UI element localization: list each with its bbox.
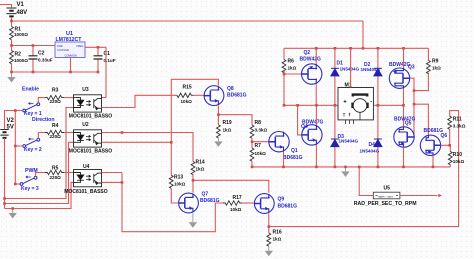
switch S2 Key=2 Direction bbox=[23, 138, 40, 147]
svg-text:BD681G: BD681G bbox=[283, 155, 303, 161]
svg-text:LM7812CT: LM7812CT bbox=[56, 37, 83, 43]
svg-text:Q6: Q6 bbox=[441, 133, 448, 139]
diode D2 1N5404G bbox=[377, 48, 379, 105]
svg-text:Q1: Q1 bbox=[291, 148, 298, 154]
svg-text:Q7: Q7 bbox=[202, 192, 209, 198]
wire R5 to U4 anode bbox=[64, 172, 74, 174]
wire opto cathode return line 1 bbox=[5, 108, 74, 199]
svg-text:1N5404G: 1N5404G bbox=[339, 139, 359, 144]
battery V1 bbox=[7, 8, 17, 16]
wire H-bridge top rail bbox=[284, 47, 428, 49]
resistor R10 10kohm bbox=[448, 152, 452, 165]
wire Q9 emitter feedback to R11 R10 divider bbox=[269, 111, 459, 227]
svg-text:R11: R11 bbox=[453, 117, 462, 123]
svg-text:R10: R10 bbox=[453, 152, 462, 158]
capacitor C2 0.33uF bbox=[32, 46, 34, 73]
svg-text:10kΩ: 10kΩ bbox=[453, 159, 465, 164]
svg-text:R19: R19 bbox=[223, 120, 232, 126]
svg-text:R16: R16 bbox=[273, 230, 282, 236]
wire R11 bottom to divider node bbox=[449, 129, 451, 145]
svg-text:1N5404G: 1N5404G bbox=[360, 149, 380, 154]
wire U1 output 12V bbox=[85, 46, 106, 48]
svg-text:rad/s→rpm: rad/s→rpm bbox=[378, 195, 393, 199]
svg-text:LINE: LINE bbox=[57, 44, 63, 48]
wire U1 common pin to ground line bbox=[70, 58, 72, 73]
svg-text:C2: C2 bbox=[38, 51, 45, 57]
wire Q5 emitter to return rail bbox=[403, 147, 405, 167]
wire battery V1 minus to 48V rail bbox=[11, 17, 13, 21]
wire Q2 collector to rail bbox=[315, 48, 317, 64]
wire Q9 emitter down to R16 bbox=[268, 213, 270, 233]
resistor R16 1kohm bbox=[267, 233, 271, 246]
svg-text:BD681G: BD681G bbox=[278, 204, 298, 210]
svg-text:U4: U4 bbox=[83, 164, 90, 170]
svg-text:V1: V1 bbox=[17, 2, 25, 8]
svg-text:Q8: Q8 bbox=[227, 86, 234, 92]
wire R3 to U3 anode bbox=[64, 97, 74, 99]
transistor Q1 BD681G bbox=[269, 132, 289, 152]
wire switch feed drop to S2 S3 bbox=[15, 111, 22, 185]
battery V2 5V bbox=[0, 130, 8, 138]
svg-text:10kΩ: 10kΩ bbox=[230, 207, 242, 212]
resistor R6 1kohm bbox=[282, 60, 286, 73]
optocoupler U3 MOC8101 bbox=[74, 95, 102, 112]
block U5 RAD_PER_SEC_TO_RPM bbox=[373, 192, 400, 199]
wire motor top pin to rail bbox=[350, 48, 352, 87]
svg-text:BDW42G: BDW42G bbox=[300, 57, 322, 63]
wire Q1 emitter to return rail bbox=[283, 152, 285, 167]
ground symbol below R16 bbox=[265, 246, 273, 256]
svg-text:U1: U1 bbox=[66, 31, 73, 37]
transistor Q3 BDW42G bbox=[389, 68, 409, 88]
wire bridge return to U5 input bbox=[359, 167, 373, 196]
ground symbol on bridge return rail bbox=[341, 167, 349, 177]
wire R15 to Q8 base bbox=[194, 94, 204, 96]
transistor Q2 BDW42G bbox=[302, 64, 322, 84]
diode D1 1N5404G bbox=[334, 48, 336, 105]
svg-text:Direction: Direction bbox=[32, 117, 54, 123]
svg-text:220Ω: 220Ω bbox=[50, 134, 62, 139]
svg-text:1N5404G: 1N5404G bbox=[340, 67, 360, 72]
ground symbol below Q7 bbox=[189, 213, 197, 228]
svg-text:C1: C1 bbox=[104, 51, 111, 57]
transistor Q9 BD681G bbox=[254, 194, 274, 214]
wire S3 to R5 bbox=[36, 173, 45, 177]
wire 12V rail down to U3 collector bbox=[102, 47, 107, 97]
resistor R1 1000ohm bbox=[10, 27, 14, 40]
wire 48V rail drop to H-bridge rail bbox=[362, 21, 364, 48]
resistor R19 1kohm bbox=[216, 125, 220, 138]
wire R6 bottom to Q2 base and Q1 collector column bbox=[284, 71, 301, 106]
wire R1 to node A bbox=[11, 40, 13, 46]
motor M1 bbox=[338, 88, 373, 124]
resistor R2 1000ohm bbox=[10, 51, 14, 64]
wire Q4 collector up to motor left node bbox=[315, 105, 317, 125]
svg-text:VOLTAGE: VOLTAGE bbox=[57, 48, 69, 52]
svg-text:1kΩ: 1kΩ bbox=[223, 128, 232, 133]
resistor R7 10kohm bbox=[250, 148, 254, 161]
svg-text:R5: R5 bbox=[52, 166, 59, 172]
wire 48V top rail bbox=[12, 20, 364, 22]
diode D4 1N5404G bbox=[377, 105, 379, 167]
svg-text:R3: R3 bbox=[52, 88, 59, 94]
wire R14 bottom node to Q9 collector bbox=[193, 174, 269, 192]
wire Q3 base network R9 and Q6 collector bbox=[410, 73, 429, 137]
svg-text:220Ω: 220Ω bbox=[50, 175, 62, 180]
wire U3 emitter to R15 row bbox=[102, 95, 178, 107]
svg-text:R2: R2 bbox=[15, 51, 22, 57]
svg-text:R17: R17 bbox=[233, 195, 242, 201]
svg-text:R14: R14 bbox=[196, 160, 205, 166]
wire motor left node row bbox=[284, 104, 340, 106]
svg-text:1000Ω: 1000Ω bbox=[14, 32, 28, 37]
wire R7 bottom to bridge return bbox=[251, 161, 253, 167]
wire Q4 emitter down to return rail bbox=[315, 145, 317, 167]
svg-text:R4: R4 bbox=[52, 123, 59, 129]
resistor R11 3.3kohm bbox=[448, 116, 452, 129]
wire V1 down to R1 bbox=[11, 21, 13, 27]
svg-text:3.3kΩ: 3.3kΩ bbox=[255, 128, 268, 133]
wire Q4 base drop bbox=[298, 105, 302, 135]
wire R13 bottom to Q7 base bbox=[171, 189, 178, 204]
resistor R9 1kohm bbox=[427, 60, 431, 73]
wire bridge return rail bbox=[252, 166, 450, 168]
wire R4 to U2 anode bbox=[64, 132, 74, 134]
svg-text:10kΩ: 10kΩ bbox=[255, 151, 267, 156]
svg-text:220Ω: 220Ω bbox=[50, 99, 62, 104]
svg-text:D4: D4 bbox=[369, 142, 376, 148]
svg-text:1kΩ: 1kΩ bbox=[273, 237, 282, 242]
wire node A down to R2 bbox=[11, 46, 13, 51]
wire V2 minus down to return lines bbox=[4, 138, 6, 209]
wire opto cathode return line 2 bbox=[5, 142, 74, 203]
svg-text:1000Ω: 1000Ω bbox=[14, 58, 28, 63]
op-amp U1 LM7812CT voltage regulator bbox=[55, 42, 85, 58]
svg-text:VREG: VREG bbox=[76, 44, 83, 48]
svg-text:Key = 3: Key = 3 bbox=[21, 186, 39, 192]
svg-text:U3: U3 bbox=[82, 87, 89, 93]
wire U2 collector to R14 top bbox=[102, 133, 194, 162]
wire rail left corner down to R6 bbox=[283, 48, 285, 59]
transistor Q7 BD681G bbox=[179, 193, 199, 213]
wire R2 to ground line bbox=[11, 64, 13, 72]
wire U5 output with arrow bbox=[400, 195, 438, 197]
wire Q6 base to divider node bbox=[441, 144, 450, 146]
wire S1 to R3 bbox=[38, 98, 45, 103]
wire V2 plus up to switch feed bbox=[5, 111, 23, 130]
optocoupler U4 MOC8101 bbox=[74, 170, 102, 187]
svg-text:MOC8101_BASSO: MOC8101_BASSO bbox=[69, 114, 112, 120]
svg-text:3.3kΩ: 3.3kΩ bbox=[453, 124, 466, 129]
svg-text:Q9: Q9 bbox=[278, 197, 285, 203]
resistor R5 220ohm bbox=[45, 170, 64, 174]
resistor R15 10kohm bbox=[177, 93, 194, 97]
wire rail right corner down to R9 bbox=[427, 48, 429, 60]
ground symbol below R19 bbox=[214, 138, 222, 147]
transistor Q4 BDW47G bbox=[302, 125, 322, 145]
wire S2 to R4 bbox=[38, 133, 45, 139]
ground symbol V2 return bbox=[9, 209, 17, 219]
transistor Q6 BD681G bbox=[420, 135, 440, 155]
svg-text:1kΩ: 1kΩ bbox=[432, 66, 441, 71]
svg-text:0.1uF: 0.1uF bbox=[104, 58, 116, 63]
wire node A to U1 input bbox=[12, 45, 56, 47]
wire motor right node row bbox=[374, 104, 404, 106]
svg-text:Q3: Q3 bbox=[408, 65, 415, 71]
resistor R3 220ohm bbox=[45, 95, 64, 99]
svg-text:MOC8101_BASSO: MOC8101_BASSO bbox=[64, 189, 107, 195]
resistor R14 1kohm bbox=[191, 162, 195, 175]
wire Q6 emitter to return rail bbox=[432, 155, 434, 167]
svg-text:48V: 48V bbox=[17, 10, 28, 16]
svg-text:1kΩ: 1kΩ bbox=[288, 66, 297, 71]
svg-text:Enable: Enable bbox=[22, 87, 39, 93]
svg-text:R7: R7 bbox=[255, 143, 262, 149]
svg-text:V2: V2 bbox=[7, 118, 15, 124]
wire common ground line y72 bbox=[12, 71, 99, 73]
resistor R13 10kohm bbox=[169, 175, 173, 188]
resistor R8 3.3kohm bbox=[250, 125, 254, 138]
capacitor C1 0.1uF bbox=[97, 47, 99, 72]
svg-text:5V: 5V bbox=[7, 124, 14, 130]
wire divider node down to R10 bbox=[449, 145, 451, 167]
svg-text:1N5404G: 1N5404G bbox=[361, 67, 381, 72]
wire V1 top feed from left edge bbox=[0, 5, 12, 8]
svg-text:COMMON: COMMON bbox=[65, 53, 77, 57]
svg-text:R6: R6 bbox=[288, 59, 295, 65]
svg-text:U2: U2 bbox=[82, 122, 89, 128]
resistor R4 220ohm bbox=[45, 130, 64, 134]
svg-text:R9: R9 bbox=[432, 59, 439, 65]
svg-text:R8: R8 bbox=[255, 120, 262, 126]
ground symbol below R2 bbox=[7, 72, 15, 83]
wire Q8 emitter to node and R8 bbox=[218, 105, 252, 125]
transistor Q8 BD681G bbox=[204, 86, 224, 106]
wire R8 bottom to Q1 base node bbox=[252, 138, 269, 148]
svg-text:10kΩ: 10kΩ bbox=[181, 99, 193, 104]
svg-text:D1: D1 bbox=[337, 60, 344, 66]
switch S1 Key=1 Enable bbox=[23, 103, 40, 112]
wire Q2 emitter down to motor left node bbox=[315, 84, 317, 105]
svg-text:1kΩ: 1kΩ bbox=[196, 167, 205, 172]
svg-text:RAD_PER_SEC_TO_RPM: RAD_PER_SEC_TO_RPM bbox=[354, 201, 417, 207]
svg-text:BD681G: BD681G bbox=[227, 93, 247, 99]
svg-text:MOC8101_BASSO: MOC8101_BASSO bbox=[69, 149, 112, 155]
wire U4 output drop to bottom run bbox=[102, 173, 224, 232]
switch S3 Key=3 PWM bbox=[20, 176, 37, 185]
optocoupler U2 MOC8101 bbox=[74, 130, 102, 147]
wire Q3 emitter down through motor right node to Q5 bbox=[403, 88, 405, 127]
svg-text:Q2: Q2 bbox=[304, 50, 311, 56]
svg-text:Q5: Q5 bbox=[405, 121, 412, 127]
svg-text:R15: R15 bbox=[183, 85, 192, 91]
wire R17 to Q9 base bbox=[242, 202, 254, 204]
svg-text:Q4: Q4 bbox=[301, 124, 308, 130]
svg-text:R13: R13 bbox=[174, 175, 183, 181]
svg-text:Key = 2: Key = 2 bbox=[24, 147, 42, 153]
wire U2 emitter to Q8 collector net bbox=[102, 141, 172, 143]
wire Q8 collector loop to R13 bbox=[171, 79, 218, 175]
svg-text:0.33uF: 0.33uF bbox=[38, 58, 53, 63]
diode D3 1N5404G bbox=[334, 105, 336, 167]
transistor Q5 BDW47G bbox=[394, 127, 414, 147]
wire opto cathode return line 3 bbox=[5, 182, 74, 208]
resistor R17 10kohm bbox=[223, 201, 242, 205]
svg-text:10kΩ: 10kΩ bbox=[174, 182, 186, 187]
svg-text:U5: U5 bbox=[384, 185, 391, 191]
wire Q3 collector to rail bbox=[403, 48, 405, 68]
